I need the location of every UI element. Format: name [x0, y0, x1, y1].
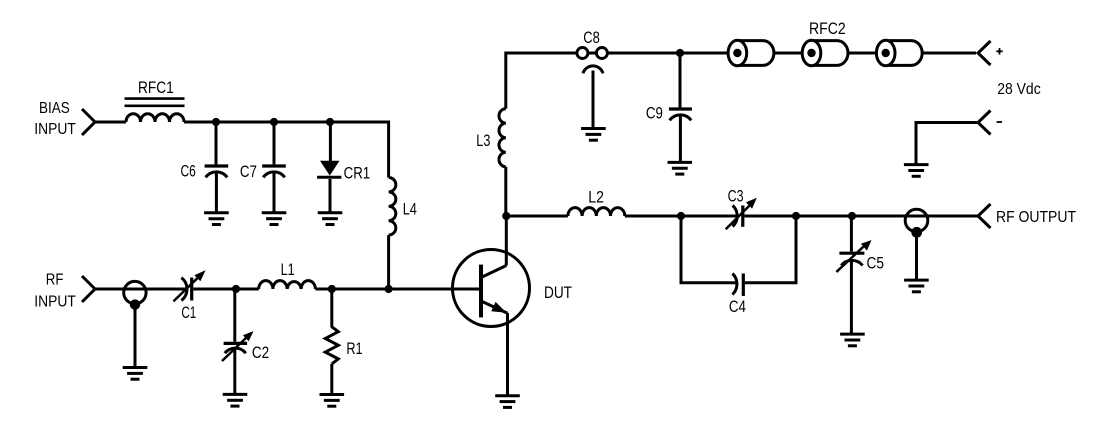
- svg-text:C2: C2: [252, 343, 269, 362]
- wire L1 to transistor base: [315, 288, 483, 291]
- wire bias corner down to L4: [387, 121, 390, 178]
- node C3 C4 left junction: [677, 212, 685, 220]
- choke RFC2 bead 1: [728, 40, 774, 66]
- capacitor C3 variable: [726, 198, 757, 230]
- node C6 junction: [212, 118, 220, 126]
- capacitor C2 variable: [222, 289, 254, 394]
- svg-text:L3: L3: [476, 131, 490, 150]
- ground: [223, 394, 248, 406]
- svg-text:C8: C8: [583, 28, 600, 47]
- svg-text:C5: C5: [867, 253, 885, 272]
- ground: [668, 162, 693, 174]
- svg-text:R1: R1: [346, 339, 362, 358]
- capacitor C5 variable: [836, 216, 871, 334]
- rf output terminal: [978, 204, 991, 228]
- choke RFC2 bead 2: [802, 40, 848, 66]
- inductor L1: [259, 281, 316, 289]
- rf input terminal: [82, 276, 95, 302]
- plus supply terminal: [978, 41, 991, 65]
- svg-text:L4: L4: [403, 200, 417, 219]
- choke RFC1: [125, 99, 185, 122]
- wire bias line RFC1 to L4 corner: [184, 121, 389, 124]
- capacitor C6: [205, 122, 229, 213]
- wire minus terminal: [916, 123, 978, 165]
- ground: [123, 368, 148, 380]
- capacitor C4: [732, 274, 743, 297]
- svg-text:C3: C3: [728, 187, 744, 206]
- label plus: [996, 48, 1002, 54]
- label minus: [997, 121, 1002, 123]
- ground: [262, 213, 287, 225]
- node C2 junction: [232, 285, 240, 293]
- minus supply terminal: [978, 111, 991, 135]
- wire C3 to output terminal: [744, 215, 978, 218]
- capacitor C7: [262, 122, 286, 213]
- svg-text:C7: C7: [240, 162, 257, 181]
- ground: [320, 395, 345, 407]
- label RF INPUT: [34, 271, 76, 310]
- label BIAS INPUT: [34, 100, 76, 138]
- node R1 junction: [328, 285, 336, 293]
- svg-text:RFC1: RFC1: [138, 78, 174, 97]
- capacitor C9: [669, 53, 692, 162]
- wire bias input to RFC1: [95, 121, 126, 124]
- ground: [581, 129, 606, 141]
- svg-text:BIAS: BIAS: [39, 100, 70, 117]
- ground: [318, 213, 343, 225]
- ground: [204, 213, 229, 225]
- coax connector rf output: [905, 209, 928, 280]
- capacitor C8 feedthrough: [577, 48, 608, 129]
- node C3 C4 right junction: [792, 212, 800, 220]
- svg-text:INPUT: INPUT: [34, 293, 76, 310]
- inductor L3: [499, 109, 506, 167]
- choke RFC2 bead 3: [876, 40, 922, 66]
- svg-text:L1: L1: [281, 260, 295, 279]
- wire L3 up and right to C8: [506, 53, 577, 109]
- svg-text:RFC2: RFC2: [809, 19, 846, 38]
- inductor L2: [568, 208, 625, 216]
- svg-text:INPUT: INPUT: [34, 121, 76, 138]
- svg-text:RF OUTPUT: RF OUTPUT: [996, 209, 1076, 226]
- ground: [904, 280, 929, 292]
- svg-text:28 Vdc: 28 Vdc: [997, 81, 1041, 98]
- node CR1 junction: [326, 118, 334, 126]
- node C7 junction: [270, 118, 278, 126]
- coax connector rf input: [124, 281, 146, 367]
- ground: [495, 396, 520, 408]
- inductor L4: [389, 178, 396, 236]
- wire emitter down to ground: [506, 313, 509, 396]
- capacitor C1 variable: [173, 270, 205, 301]
- svg-text:RF: RF: [46, 271, 64, 288]
- transistor DUT: [453, 250, 530, 327]
- wire C1 to L1: [193, 288, 258, 291]
- node C9 junction: [676, 49, 684, 57]
- svg-text:C4: C4: [729, 297, 746, 316]
- ground: [904, 165, 929, 177]
- wire rf input to C1: [95, 288, 188, 291]
- svg-text:C9: C9: [646, 103, 663, 122]
- bias input terminal: [82, 109, 95, 135]
- wire collector node to L3: [504, 167, 507, 216]
- wire L4 to base line: [387, 235, 390, 289]
- resistor R1: [325, 289, 338, 395]
- node C5 junction: [848, 212, 856, 220]
- wire collector node to L2: [506, 215, 568, 218]
- ground: [840, 334, 865, 346]
- node collector junction: [502, 212, 510, 220]
- svg-text:C6: C6: [181, 162, 196, 181]
- wire C8 to plus terminal: [607, 52, 976, 55]
- node L4 base junction: [385, 285, 393, 293]
- svg-text:CR1: CR1: [344, 163, 371, 182]
- svg-text:L2: L2: [588, 187, 604, 206]
- wire collector up to node: [505, 216, 508, 266]
- wire C4 branch left: [681, 216, 737, 283]
- svg-text:C1: C1: [181, 303, 196, 322]
- diode CR1: [317, 122, 341, 213]
- wire C4 branch right: [745, 216, 796, 283]
- svg-text:DUT: DUT: [544, 283, 572, 302]
- wire L2 to C3: [625, 215, 739, 218]
